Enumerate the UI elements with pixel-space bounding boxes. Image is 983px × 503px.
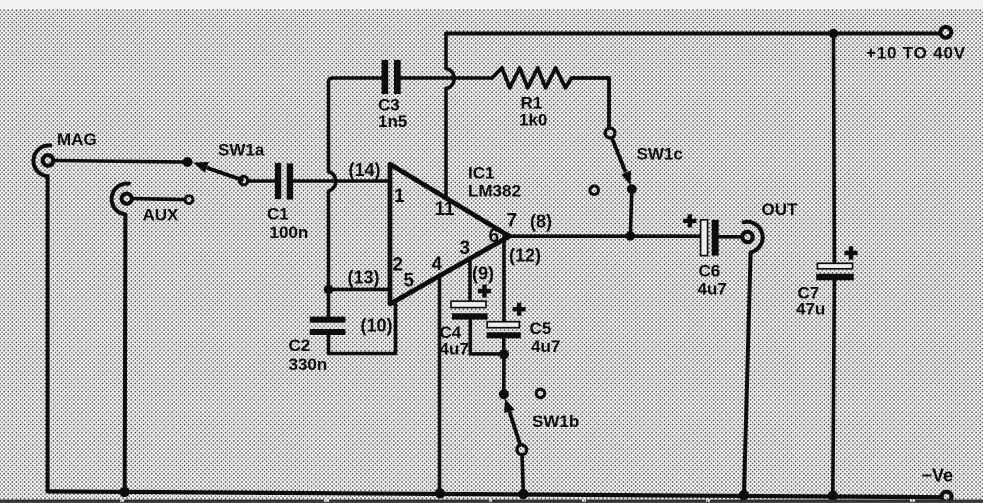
- node +V top supply rail: [446, 32, 939, 36]
- svg-text:4u7: 4u7: [531, 337, 560, 356]
- svg-text:AUX: AUX: [143, 206, 180, 225]
- wire C5 bottom to SW1b junction: [502, 338, 506, 354]
- junction C4 C5 SW1b dot: [499, 349, 509, 359]
- switch SW1c arm with arrowhead toward pivot: [612, 138, 631, 186]
- wire C2 bottom to node (10) loop up to IC1 vertex: [329, 301, 396, 354]
- svg-text:IC1: IC1: [468, 164, 494, 183]
- capacitor C1 plates: [275, 163, 293, 200]
- wire output node down to C5 top plate: [502, 237, 506, 322]
- svg-text:100n: 100n: [270, 223, 309, 242]
- svg-text:4u7: 4u7: [440, 340, 469, 359]
- svg-text:330n: 330n: [289, 355, 328, 374]
- junction 0V rail SW1b dot: [518, 489, 528, 499]
- svg-text:(10): (10): [361, 316, 393, 336]
- junction 0V rail AUX dot: [119, 487, 129, 497]
- switch SW1b bottom contact circle: [517, 445, 527, 455]
- plus sign of C7: [844, 246, 857, 259]
- wire IC1 output apex to C6 left plate: [509, 234, 701, 238]
- switch SW1b unused contact circle: [536, 389, 545, 398]
- switch SW1c unused contact circle: [590, 186, 599, 195]
- wire AUX terminal hook and vertical down to 0V rail: [112, 184, 129, 492]
- wire SW1b junction to SW1b pivot: [502, 354, 506, 394]
- capacitor C6 plates (electrolytic, hollow + plate): [701, 220, 719, 256]
- wire pin11 vertical from +V rail with hop over C3-R1 wire: [446, 34, 454, 199]
- wire SW1a contact to C1 left plate: [248, 179, 275, 183]
- svg-text:(14): (14): [349, 160, 381, 180]
- wire C7 bottom plate down to 0V rail: [833, 280, 835, 495]
- svg-text:3: 3: [460, 238, 471, 259]
- wire node (13) to IC1 left edge: [329, 288, 391, 292]
- bottom page-edge smudge: [0, 500, 983, 503]
- wire SW1b contact down to 0V rail: [522, 455, 523, 495]
- svg-text:C6: C6: [699, 262, 721, 281]
- wire AUX terminal to open contact: [134, 199, 185, 200]
- svg-text:7: 7: [507, 211, 518, 232]
- svg-text:(13): (13): [348, 268, 380, 288]
- wire C4 bottom to SW1b junction: [470, 320, 504, 354]
- node 0V bottom rail: [48, 491, 940, 497]
- svg-text:OUT: OUT: [762, 200, 799, 219]
- switch SW1a arm with arrowhead toward pivot: [193, 162, 243, 180]
- svg-text:1n5: 1n5: [378, 112, 407, 131]
- junction SW1c pivot dot: [627, 184, 637, 194]
- switch SW1a moving contact circle: [239, 176, 247, 184]
- svg-text:C1: C1: [267, 204, 289, 223]
- wire pin 3 line down to C4: [468, 258, 472, 301]
- wire MAG terminal hook and vertical down to 0V rail: [33, 145, 50, 491]
- resistor R1 1k0: [492, 68, 609, 128]
- plus sign of C6: [683, 214, 696, 227]
- junction 0V rail C7 dot: [828, 490, 838, 500]
- switch SW1c top contact circle: [605, 128, 615, 138]
- wire OUT terminal hook and vertical down to 0V rail: [744, 222, 763, 494]
- wire SW1c pivot down to output line: [630, 189, 631, 236]
- terminal MAG input: [43, 155, 54, 166]
- junction SW1b pivot dot: [499, 389, 509, 399]
- svg-text:C2: C2: [289, 336, 311, 355]
- capacitor C2 plates: [310, 317, 346, 335]
- wire +V rail junction down to C7 top plate: [832, 34, 837, 264]
- junction SW1a pivot dot: [183, 157, 193, 167]
- svg-text:2: 2: [393, 254, 404, 275]
- svg-text:−Ve: −Ve: [922, 466, 954, 486]
- capacitor C7 plates (electrolytic, hollow + plate): [816, 263, 854, 280]
- junction 0V rail pin4 dot: [435, 488, 445, 498]
- svg-text:(9): (9): [472, 264, 494, 284]
- junction +V rail C7 dot: [829, 29, 839, 39]
- junction output line SW1c dot: [626, 231, 636, 241]
- wire C3 right plate to R1 left lead: [401, 76, 492, 80]
- plus sign of C4: [478, 284, 491, 297]
- wire pin 4 line down to 0V rail: [438, 276, 442, 494]
- switch SW1b arm with arrowhead toward pivot: [504, 399, 520, 445]
- junction node (13) dot: [324, 285, 334, 295]
- svg-text:SW1c: SW1c: [637, 145, 683, 164]
- terminal -Ve supply: [942, 492, 952, 502]
- svg-text:4: 4: [432, 254, 443, 275]
- terminal OUT output: [742, 232, 752, 242]
- svg-text:LM382: LM382: [468, 182, 521, 201]
- svg-text:5: 5: [404, 271, 415, 292]
- svg-text:C5: C5: [530, 319, 552, 338]
- svg-text:4u7: 4u7: [698, 280, 727, 299]
- capacitor C3 plates: [382, 60, 401, 94]
- svg-text:1k0: 1k0: [519, 111, 547, 130]
- terminal AUX open contact: [185, 196, 193, 204]
- svg-text:1: 1: [394, 186, 405, 207]
- capacitor C4 plates (electrolytic, hollow + plate): [451, 301, 488, 319]
- svg-text:+10 TO 40V: +10 TO 40V: [866, 44, 966, 63]
- svg-text:6: 6: [489, 226, 500, 247]
- wire MAG terminal to SW1a junction: [55, 161, 184, 163]
- svg-text:MAG: MAG: [57, 130, 97, 149]
- op-amp IC1 LM382 triangle: [390, 164, 509, 304]
- plus sign of C5: [513, 303, 526, 316]
- svg-text:(12): (12): [509, 246, 541, 266]
- junction 0V rail OUT dot: [739, 490, 749, 500]
- capacitor C5 plates (electrolytic, hollow + plate): [487, 322, 521, 339]
- terminal AUX input: [122, 194, 132, 204]
- svg-text:SW1a: SW1a: [218, 141, 265, 160]
- svg-text:47u: 47u: [796, 300, 825, 319]
- wire C6 right plate to OUT terminal: [719, 235, 741, 239]
- svg-text:SW1b: SW1b: [532, 412, 579, 431]
- svg-text:11: 11: [435, 199, 456, 220]
- wire C1 right plate to pin 1 node (14) at IC1: [293, 179, 390, 183]
- wire C3 left loop: from C3 left plate to left vertical node down to C2, hop over C1 wire: [329, 78, 382, 317]
- terminal +V supply: [940, 27, 951, 38]
- svg-text:(8): (8): [530, 212, 552, 232]
